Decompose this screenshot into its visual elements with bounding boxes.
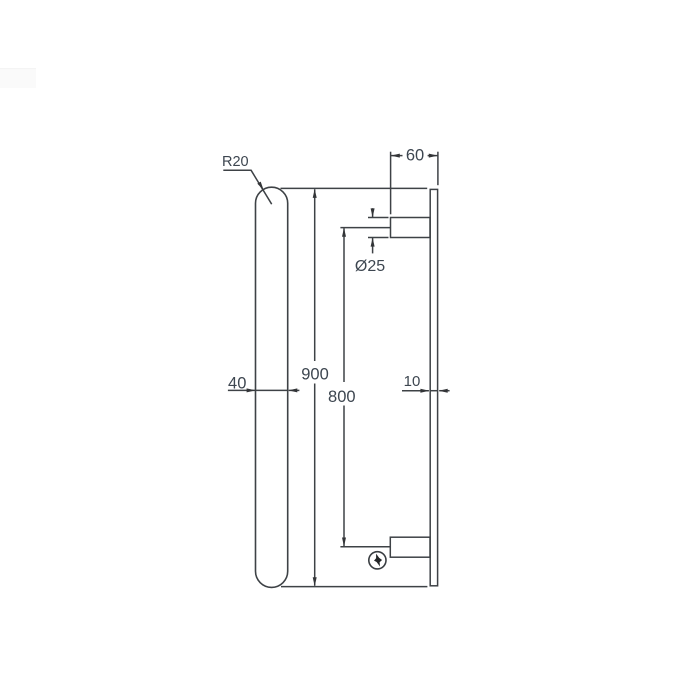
bottom extension line: [281, 586, 427, 588]
top extension line: [281, 187, 428, 189]
arrowhead d25 lower (up): [371, 238, 375, 247]
dimension 60 line segments: [391, 155, 403, 157]
svg-text:Ø25: Ø25: [355, 258, 385, 275]
arrowhead 40 right (left-pointing): [288, 388, 297, 392]
door panel flat bar side view: [430, 189, 437, 585]
arrowhead 60 left (left-pointing): [391, 154, 400, 158]
arrowhead 10 right (left-pointing): [439, 389, 448, 393]
electro symbol circle with lightning bolt: [369, 552, 386, 569]
dimension 60 left extension line: [390, 152, 392, 215]
faint artifact rectangle top-left: [0, 68, 36, 88]
arrowhead 800 top (up): [342, 228, 346, 237]
svg-text:10: 10: [404, 373, 421, 390]
svg-text:900: 900: [301, 366, 329, 384]
dimension d25 vertical line lower: [372, 238, 374, 254]
arrowhead 800 bottom (down): [342, 538, 346, 547]
bottom standoff centerline: [340, 546, 390, 548]
top standoff centerline: [340, 227, 390, 229]
arrowhead 900 top (up): [313, 189, 317, 198]
svg-text:800: 800: [328, 388, 356, 406]
handle front view pill outline: [256, 187, 288, 587]
dimension 60 right extension line: [437, 152, 439, 186]
top standoff rectangle: [391, 218, 431, 238]
dimension d25 lower extension tick: [368, 237, 389, 239]
arrowhead 60 right (right-pointing): [429, 154, 438, 158]
arrowhead 40 left (right-pointing): [247, 388, 256, 392]
svg-text:60: 60: [406, 147, 424, 165]
dimension 900 line: [314, 189, 316, 361]
arrowhead d25 upper (down): [371, 208, 375, 217]
dimension d25 upper extension tick: [368, 217, 389, 219]
radius leader line R20: [223, 170, 271, 204]
dimension 40 line: [228, 389, 255, 391]
dimension d25 vertical line upper: [372, 208, 374, 217]
svg-text:R20: R20: [222, 154, 249, 170]
arrowhead 10 left (right-pointing): [420, 389, 429, 393]
bottom standoff rectangle: [390, 537, 430, 557]
svg-text:40: 40: [228, 375, 246, 393]
dimension 800 line: [343, 228, 345, 382]
arrowhead 900 bottom (down): [313, 577, 317, 586]
arrowhead R20 leader (down-right pointing): [257, 182, 263, 191]
dimension 10 line: [402, 390, 429, 392]
